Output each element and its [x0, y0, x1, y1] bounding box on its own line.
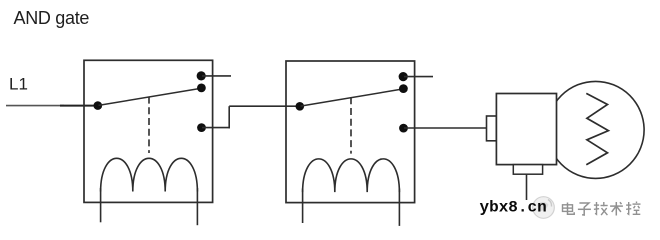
watermark fist icon [533, 197, 555, 219]
relay K2 coil [303, 159, 400, 192]
wire: L1 input to relay K1 common [60, 105, 98, 107]
relay K2 coil right lead [398, 189, 400, 226]
relay K2 arm contact node [399, 84, 408, 93]
wire: relay K1 top contact stub [202, 75, 231, 77]
relay K1 box [84, 60, 213, 202]
wire: relay K2 top contact stub [404, 76, 433, 78]
svg-text:AND gate: AND gate [14, 8, 90, 28]
watermark CJK char 电 [563, 203, 575, 215]
watermark CJK char 子 [578, 203, 591, 215]
svg-text:ybx8.cn: ybx8.cn [480, 199, 547, 217]
relay K1 top contact node [197, 71, 206, 80]
relay K1 coil left lead [100, 188, 102, 222]
wire: lamp return lead down [526, 174, 528, 200]
wire: relay K2 lower contact to lamp [404, 127, 487, 129]
relay K2 actuator dashed link [350, 97, 352, 153]
relay K2 top contact node [399, 72, 408, 81]
relay K2 switch arm [301, 89, 404, 106]
relay K1 coil [101, 158, 198, 191]
lamp DS1 base step [513, 165, 542, 175]
relay K1 actuator dashed link [148, 97, 150, 153]
wire: L1 input lead (light segment) [6, 105, 64, 107]
wire: riser between relays [228, 106, 230, 128]
relay K2 common contact node [296, 102, 305, 111]
lamp DS1 terminal tab [487, 116, 497, 141]
watermark CJK char 控 [626, 202, 640, 215]
relay K2 box [286, 61, 415, 203]
relay K1 arm contact node [197, 84, 206, 93]
relay K2 lower contact node [399, 124, 408, 133]
wire: riser to relay K2 common [229, 105, 300, 107]
svg-text:L1: L1 [9, 75, 28, 94]
relay K2 coil left lead [302, 189, 304, 224]
lamp DS1 filament zigzag [586, 93, 608, 164]
relay K1 common contact node [94, 101, 103, 110]
relay K1 coil right lead [196, 188, 198, 225]
watermark CJK char 技 [594, 202, 608, 215]
lamp DS1 base body [496, 94, 556, 165]
watermark CJK char 术 [610, 202, 623, 216]
lamp DS1 bulb envelope [547, 81, 644, 178]
relay K1 switch arm [99, 88, 202, 105]
relay K1 lower contact node [197, 123, 206, 132]
wire: relay K1 lower contact to riser [202, 127, 230, 129]
